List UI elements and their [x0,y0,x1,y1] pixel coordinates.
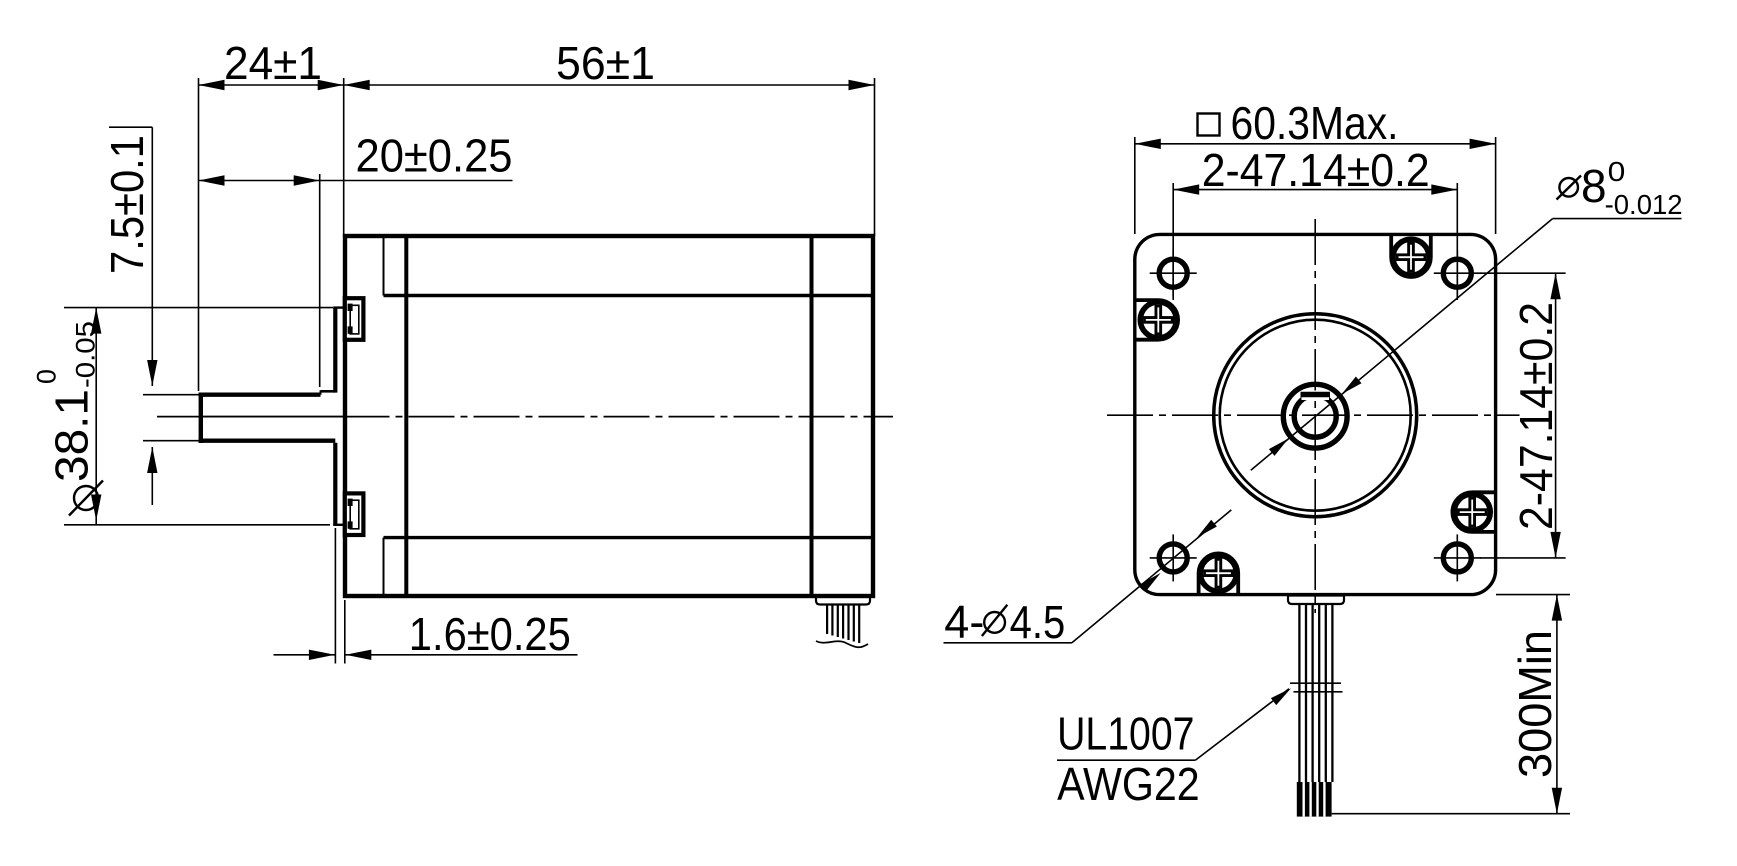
bottom mounting tab [345,493,364,535]
rear endcap line [810,236,814,596]
wire break squiggle (side view) [816,641,868,647]
mounting hole top-right [1443,259,1471,287]
leader UL1007 / AWG22 [1195,689,1289,761]
cable grommet (front view) [1288,596,1344,605]
svg-text:1.6±0.25: 1.6±0.25 [409,608,571,660]
shaft: bottom edge [199,439,336,443]
assembly screw bottom [1199,553,1239,594]
svg-text:0: 0 [1608,156,1626,187]
svg-text:24±1: 24±1 [224,37,322,89]
svg-text:AWG22: AWG22 [1057,758,1200,810]
svg-text:60.3Max.: 60.3Max. [1231,97,1399,149]
dimension square 60.3 Max [1134,137,1136,234]
cable break lines [1290,682,1341,684]
svg-text:2-47.14±0.2: 2-47.14±0.2 [1510,302,1562,530]
mounting hole bottom-left [1159,544,1187,572]
dimension 300Min [1496,594,1570,596]
svg-text:0: 0 [32,369,62,384]
dimension 56±1 [344,80,370,90]
dimension Ø38.1 0/-0.05 [64,307,333,309]
top chamfer edge [383,236,385,296]
cable wires (front view) [1298,604,1300,782]
Ø symbol of 38.1 [74,486,98,510]
assembly screw left [1135,300,1178,340]
mounting hole bottom-right [1443,544,1471,572]
wire grommet (side view) [816,597,870,605]
svg-text:4-: 4- [944,596,984,648]
shaft: flat edge line [200,416,344,418]
front endcap line [404,236,408,596]
assembly screw right [1452,492,1495,532]
mounting hole top-left [1159,259,1187,287]
assembly screw top [1391,235,1431,277]
pilot boss circles [1214,314,1417,517]
vertical centerline [1314,219,1316,613]
leader 4-Ø4.5 [1072,510,1231,643]
shaft: end face [199,393,203,443]
svg-text:7.5±0.1: 7.5±0.1 [101,135,153,274]
svg-text:UL1007: UL1007 [1057,708,1194,760]
shaft circles with flat (D-cut) [1294,395,1336,437]
shaft: step at end of flat [320,390,322,394]
svg-text:8: 8 [1581,160,1607,212]
horizontal centerline [1107,414,1520,416]
svg-text:20±0.25: 20±0.25 [356,130,513,182]
dimension 2-47.14±0.2 horizontal [1172,183,1174,300]
svg-text:-0.012: -0.012 [1605,189,1683,220]
top mounting tab [345,298,364,340]
dimension 1.6±0.25 [334,528,336,664]
svg-text:4.5: 4.5 [1010,596,1066,648]
dimension 20±0.25 [319,174,321,387]
faceplate square [1135,234,1496,594]
shaft: flat-section top edge [199,393,321,397]
svg-text:38.1: 38.1 [46,389,98,482]
dimension 2-47.14±0.2 vertical [1480,272,1566,274]
motor body outline (side view) [345,236,873,596]
leader Ø8 0/-0.012 [1251,219,1553,471]
svg-text:300Min: 300Min [1509,630,1561,778]
svg-text:-0.05: -0.05 [71,321,101,388]
dimension 7.5±0.1 [109,126,152,128]
centerline (side view) [157,416,199,418]
svg-text:56±1: 56±1 [556,37,655,89]
wires (side view) [826,605,828,635]
dimension 24±1 [198,78,200,391]
svg-text:2-47.14±0.2: 2-47.14±0.2 [1202,144,1430,196]
bottom chamfer edge [383,538,385,596]
stripped wire tassel [1297,782,1332,817]
pilot boss (edge view) [333,308,337,393]
